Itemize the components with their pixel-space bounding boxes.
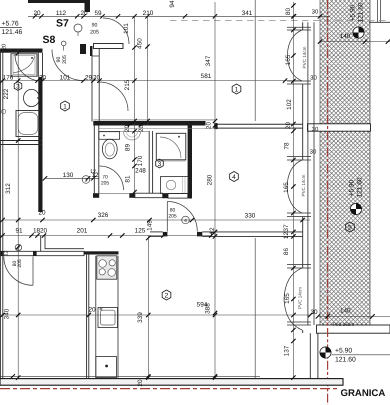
svg-text:121.46: 121.46	[2, 29, 23, 36]
svg-text:30: 30	[312, 9, 319, 16]
svg-text:112: 112	[56, 10, 67, 17]
svg-text:PVC 14cm: PVC 14cm	[298, 287, 303, 309]
svg-text:Pod 16cm: Pod 16cm	[333, 322, 355, 328]
svg-text:102: 102	[286, 99, 293, 110]
svg-text:29: 29	[85, 74, 93, 81]
svg-text:581: 581	[201, 73, 212, 80]
svg-text:20: 20	[138, 125, 145, 133]
svg-text:347: 347	[205, 55, 212, 66]
svg-text:+5.76: +5.76	[2, 21, 19, 28]
svg-text:20: 20	[80, 10, 88, 17]
svg-text:1: 1	[63, 103, 67, 110]
svg-text:GRANICA: GRANICA	[341, 388, 386, 399]
svg-text:101: 101	[60, 74, 71, 81]
svg-text:205: 205	[168, 214, 177, 220]
svg-text:20: 20	[33, 10, 41, 17]
svg-text:30: 30	[310, 309, 318, 316]
svg-text:30: 30	[312, 126, 319, 133]
svg-text:3: 3	[85, 178, 88, 184]
svg-text:205: 205	[90, 30, 99, 36]
svg-text:20: 20	[285, 122, 292, 130]
svg-text:340: 340	[4, 308, 11, 319]
svg-text:165: 165	[283, 182, 290, 193]
svg-text:140: 140	[340, 33, 351, 40]
svg-text:312: 312	[5, 183, 12, 194]
svg-text:+5.90: +5.90	[335, 347, 352, 354]
svg-text:140: 140	[340, 308, 351, 315]
svg-text:20: 20	[38, 210, 46, 217]
svg-text:388: 388	[205, 303, 212, 314]
svg-text:330: 330	[245, 212, 256, 219]
svg-text:PVC 14cm: PVC 14cm	[301, 174, 306, 196]
svg-text:+5.90: +5.90	[349, 179, 356, 196]
svg-text:90: 90	[92, 23, 98, 29]
svg-text:280: 280	[207, 174, 214, 185]
svg-text:205: 205	[17, 259, 23, 268]
svg-text:20: 20	[2, 44, 8, 50]
svg-text:326: 326	[98, 212, 109, 219]
svg-text:101: 101	[123, 23, 130, 34]
svg-text:81: 81	[125, 175, 132, 183]
svg-text:20: 20	[88, 307, 96, 314]
svg-text:215: 215	[124, 79, 131, 90]
svg-text:2: 2	[17, 245, 20, 250]
svg-text:165: 165	[285, 54, 292, 65]
svg-text:149: 149	[146, 220, 153, 231]
svg-text:248: 248	[135, 168, 146, 175]
svg-text:86: 86	[283, 248, 290, 256]
svg-text:341: 341	[242, 10, 253, 17]
svg-text:170: 170	[137, 155, 144, 166]
svg-text:205: 205	[62, 55, 68, 64]
svg-text:20: 20	[39, 74, 47, 81]
svg-text:1: 1	[235, 86, 239, 93]
svg-text:80: 80	[285, 8, 292, 16]
svg-text:20: 20	[206, 122, 213, 130]
svg-text:4: 4	[232, 174, 236, 181]
svg-text:3: 3	[16, 83, 20, 90]
svg-text:30: 30	[310, 149, 317, 156]
svg-text:121.60: 121.60	[357, 177, 364, 198]
svg-text:12: 12	[209, 227, 216, 235]
svg-text:210: 210	[143, 10, 154, 17]
svg-text:3: 3	[158, 161, 162, 168]
svg-text:12: 12	[4, 250, 10, 256]
svg-text:PVC 14cm: PVC 14cm	[302, 46, 307, 68]
svg-text:20: 20	[40, 228, 48, 235]
svg-text:91: 91	[15, 228, 23, 235]
svg-text:12: 12	[283, 232, 290, 240]
svg-text:137: 137	[284, 345, 291, 356]
svg-text:94: 94	[169, 0, 176, 8]
svg-text:450: 450	[137, 38, 144, 49]
svg-text:222: 222	[3, 88, 10, 99]
svg-text:121.60: 121.60	[335, 357, 356, 364]
svg-text:165: 165	[284, 293, 291, 304]
svg-text:339: 339	[137, 312, 144, 323]
svg-text:130: 130	[63, 172, 74, 179]
svg-text:S7: S7	[56, 18, 69, 30]
svg-text:125: 125	[135, 228, 146, 235]
svg-text:20: 20	[93, 74, 101, 81]
svg-text:5: 5	[348, 224, 352, 231]
svg-text:20: 20	[137, 379, 144, 387]
svg-text:201: 201	[77, 228, 88, 235]
svg-text:59: 59	[94, 10, 102, 17]
svg-text:2: 2	[165, 292, 169, 299]
svg-text:121.60: 121.60	[358, 2, 365, 23]
svg-text:4: 4	[184, 218, 187, 224]
svg-text:37: 37	[283, 224, 290, 232]
svg-text:176: 176	[3, 74, 14, 81]
svg-text:89: 89	[125, 144, 132, 152]
svg-text:78: 78	[284, 142, 291, 150]
svg-text:+5.90: +5.90	[350, 4, 357, 21]
svg-text:12: 12	[90, 169, 96, 175]
svg-text:20: 20	[124, 125, 131, 133]
svg-text:205: 205	[101, 181, 110, 187]
svg-text:30: 30	[310, 75, 317, 82]
svg-text:S8: S8	[43, 34, 56, 46]
